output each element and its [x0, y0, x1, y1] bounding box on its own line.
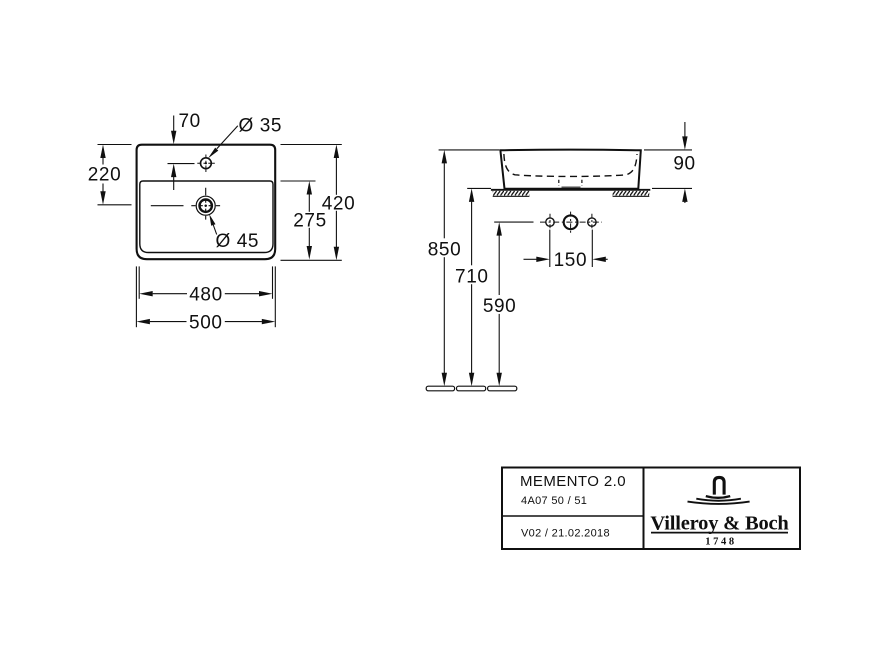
svg-text:220: 220 — [88, 165, 122, 186]
logo arch symbol — [714, 477, 724, 494]
svg-text:MEMENTO 2.0: MEMENTO 2.0 — [520, 473, 626, 490]
svg-text:150: 150 — [554, 250, 588, 271]
floor tile 2 — [457, 386, 486, 391]
svg-text:Ø 35: Ø 35 — [239, 115, 283, 136]
drain centre dot — [205, 205, 207, 207]
dimension 220 (top edge to drain centre) — [98, 145, 132, 205]
drain hole O45 inner — [200, 200, 212, 212]
basin inner bowl (top view) — [140, 181, 273, 253]
svg-text:275: 275 — [293, 210, 327, 231]
dimension 850 (floor to rim) — [439, 150, 500, 373]
logo underline — [651, 532, 788, 534]
svg-text:V02 / 21.02.2018: V02 / 21.02.2018 — [521, 528, 610, 540]
svg-text:850: 850 — [428, 239, 462, 260]
svg-text:70: 70 — [179, 111, 201, 132]
hatched counter left — [493, 191, 530, 196]
left fixing hole — [546, 218, 554, 226]
dimension 90 (basin height) — [644, 122, 692, 203]
dimension 420 (overall depth) — [281, 145, 342, 261]
dimension 150 (tap hole spacing) — [524, 230, 608, 267]
bowl interior dashed line (front view) — [504, 154, 637, 176]
svg-text:590: 590 — [483, 296, 517, 317]
svg-text:710: 710 — [455, 266, 489, 287]
drain recess marks (front view) — [558, 180, 560, 186]
dimension 710 (floor to counter) — [467, 188, 491, 373]
title block vertical divider — [643, 468, 645, 550]
drain hole O45 outer — [196, 196, 215, 215]
right fixing hole — [588, 218, 596, 226]
svg-text:420: 420 — [322, 193, 356, 214]
faucet centre dot — [205, 162, 207, 164]
drain vertical centerline — [205, 188, 207, 220]
basin outer rim (top view) — [137, 145, 276, 260]
title block horizontal divider — [502, 515, 644, 517]
faucet hole O35 — [201, 158, 212, 169]
svg-text:90: 90 — [673, 154, 695, 175]
floor tile 1 — [426, 386, 454, 391]
svg-text:4A07 50 / 51: 4A07 50 / 51 — [521, 495, 587, 507]
svg-text:480: 480 — [189, 285, 223, 306]
floor tile 3 — [488, 386, 517, 391]
dimension 590 (floor to tap holes) — [494, 222, 533, 373]
title block outer box — [502, 468, 800, 550]
middle tap hole — [564, 215, 578, 229]
label O 45 with leader — [213, 225, 216, 235]
logo ripple 1 — [706, 496, 730, 498]
logo ripple 3 — [688, 502, 750, 504]
svg-text:Ø 45: Ø 45 — [216, 231, 260, 252]
svg-text:500: 500 — [189, 312, 223, 333]
svg-text:1748: 1748 — [705, 537, 736, 548]
fixing holes centerline — [540, 221, 602, 223]
dimension 70 (top edge to faucet centre) — [168, 116, 195, 191]
dimension 275 (bowl to bottom edge) — [281, 181, 316, 246]
hatched counter right — [613, 191, 650, 196]
faucet hole centerlines — [197, 162, 215, 164]
dimension 480 (inner width) — [139, 266, 272, 298]
dimension 500 (overall width) — [136, 266, 275, 327]
countertop surface line — [491, 189, 650, 191]
drain horizontal centerline — [151, 205, 220, 207]
svg-text:Villeroy & Boch: Villeroy & Boch — [650, 512, 789, 534]
logo ripple 2 — [696, 499, 741, 501]
label O 35 with leader — [217, 126, 238, 149]
basin profile outline (front view) — [500, 150, 640, 189]
